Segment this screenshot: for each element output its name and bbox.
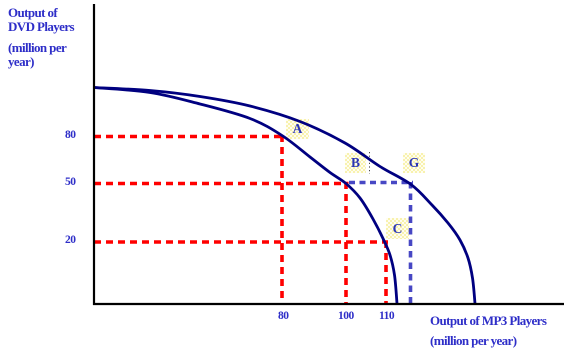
x tick 100 [338, 310, 354, 322]
x-axis [93, 303, 564, 305]
dotted marker line right of label B [369, 152, 371, 174]
point label B [345, 153, 366, 173]
x tick 80 [278, 310, 289, 322]
y tick 50 [65, 176, 76, 188]
point label G [403, 153, 425, 173]
y tick 20 [65, 234, 76, 246]
red dashed horizontal line at DVD=50 [94, 182, 349, 186]
red dashed vertical line at MP3=100 [344, 182, 348, 305]
y tick 80 [65, 129, 76, 141]
y-axis [93, 4, 95, 305]
axis title: Output of MP3 Players (million per year) [430, 311, 546, 351]
red dashed vertical line at MP3=80 [280, 135, 284, 305]
blue dashed vertical line at point G (MP3=117) [409, 182, 413, 305]
inner PPF curve [94, 88, 397, 304]
point label A [286, 119, 309, 139]
blue dashed horizontal line at DVD=50 from B to G [349, 181, 413, 185]
x tick 110 [379, 310, 394, 322]
red dashed vertical line at MP3=110 [384, 241, 388, 305]
red dashed horizontal line at DVD=20 [94, 240, 388, 244]
axis title: Output of DVD Players (million per year) [8, 6, 74, 34]
red dashed horizontal line at DVD=80 [94, 135, 284, 139]
point label C [386, 218, 409, 239]
outer PPF curve [94, 88, 475, 304]
